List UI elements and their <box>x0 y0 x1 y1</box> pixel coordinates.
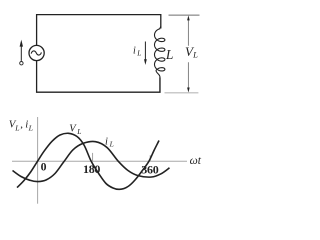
svg-text:V: V <box>69 124 77 135</box>
graph x-axis <box>12 160 187 162</box>
svg-text:L: L <box>14 123 19 132</box>
source V1 <box>29 45 44 60</box>
graph y-axis <box>37 117 39 204</box>
iL curve <box>13 141 170 181</box>
svg-text:L: L <box>136 48 141 57</box>
svg-text:,: , <box>20 119 23 131</box>
VL curve <box>17 133 159 189</box>
wire left bottom <box>37 61 160 92</box>
svg-text:i: i <box>133 46 136 57</box>
polarity arrow <box>20 46 22 61</box>
wire top <box>37 15 161 46</box>
svg-text:360: 360 <box>141 163 158 177</box>
source sine symbol <box>31 51 41 55</box>
polarity terminal circle <box>20 62 23 65</box>
svg-text:L: L <box>109 139 114 148</box>
VL dimension line <box>187 19 189 88</box>
svg-text:L: L <box>192 50 198 60</box>
svg-text:ωt: ωt <box>190 155 202 167</box>
tick 360 <box>149 155 151 161</box>
svg-text:180: 180 <box>83 162 100 176</box>
inductor L coil <box>155 26 165 92</box>
svg-text:0: 0 <box>41 160 47 174</box>
svg-text:L: L <box>165 47 174 62</box>
VL extension line bottom <box>165 92 199 94</box>
svg-text:L: L <box>76 127 81 136</box>
current arrow iL <box>144 42 146 60</box>
tick 180 <box>92 153 94 161</box>
svg-text:L: L <box>28 123 33 132</box>
svg-text:i: i <box>105 136 108 147</box>
VL dimension arrowheads <box>187 15 190 20</box>
VL extension line top <box>169 14 200 16</box>
